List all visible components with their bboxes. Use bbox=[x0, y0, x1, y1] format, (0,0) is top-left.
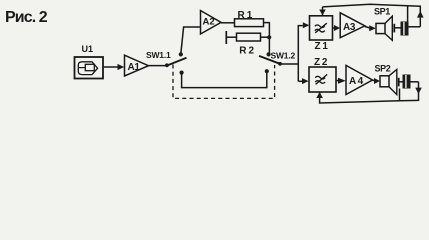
bottom feedback bus bbox=[320, 93, 419, 104]
drop from bus into Z1 top bbox=[322, 7, 324, 15]
wire element E2 right bbox=[411, 81, 419, 83]
filter Z2 box bbox=[309, 67, 336, 92]
svg-text:U1: U1 bbox=[82, 44, 94, 54]
top feedback bus bbox=[323, 4, 422, 7]
amplifier A4 bbox=[346, 65, 373, 94]
arrowhead into Z1 bbox=[303, 22, 310, 28]
arrowhead into A1 bbox=[118, 64, 125, 70]
wire A4 to SP2 bbox=[373, 79, 375, 81]
switch SW1.2 lever bbox=[259, 56, 281, 64]
wire U1 to A1 bbox=[103, 66, 118, 68]
drop element E2 bottom to bus bbox=[399, 89, 401, 101]
junction dot R2/R1 bbox=[267, 35, 271, 39]
wire R2 right to junction bbox=[261, 36, 270, 38]
wire R1 to corner bbox=[264, 23, 270, 53]
wire down right SP2 bbox=[418, 82, 420, 101]
arrowhead into A3 bbox=[334, 25, 340, 31]
pickup U1 box bbox=[75, 57, 104, 79]
wire SW1.1 up to A2 input bbox=[181, 27, 201, 53]
wire plate to element bbox=[395, 27, 401, 29]
arrowhead into A4 bbox=[338, 78, 346, 84]
wire A1 to SW1.1 bbox=[149, 65, 167, 67]
arrowhead up on feedback bbox=[417, 11, 424, 18]
switch SW1.2 bypass contact dot bbox=[265, 69, 269, 73]
pickup U1 needle line bbox=[79, 67, 85, 69]
svg-text:A2: A2 bbox=[203, 16, 215, 27]
pickup U1 inner rect bbox=[85, 64, 94, 70]
filter Z1 box bbox=[310, 16, 333, 40]
speaker SP1 bbox=[376, 23, 385, 33]
arrowhead into SP2 bbox=[374, 78, 380, 84]
drop from bus to element top bbox=[407, 6, 409, 22]
wire element right bbox=[409, 26, 421, 28]
resistor R1 bbox=[235, 19, 264, 27]
wire into Z2 bbox=[298, 80, 302, 82]
svg-text:Рис. 2: Рис. 2 bbox=[5, 9, 48, 26]
wire bypass U bbox=[182, 73, 267, 88]
wire split vertical bbox=[298, 26, 303, 82]
listener element E2 bbox=[403, 75, 411, 89]
wire Z1 to A3 bbox=[333, 27, 335, 29]
svg-text:A3: A3 bbox=[343, 22, 356, 33]
svg-text:SP1: SP1 bbox=[374, 7, 390, 17]
listener element E1 bbox=[401, 22, 409, 36]
wire A3 to SP1 bbox=[365, 27, 370, 29]
svg-text:R 2: R 2 bbox=[239, 45, 254, 56]
switch SW1.1 contact dot bbox=[179, 52, 183, 56]
switch SW1.1 bypass contact dot bbox=[180, 71, 184, 75]
wire SW1.2 output bbox=[280, 63, 298, 65]
amplifier A2 bbox=[201, 11, 222, 35]
resistor R2 bbox=[237, 33, 261, 41]
switch SW1.2 contact dot bbox=[267, 52, 271, 56]
svg-text:SP2: SP2 bbox=[375, 64, 391, 74]
plate at SP2 output bbox=[398, 78, 400, 87]
wire plate to element SP2 bbox=[399, 81, 402, 83]
svg-text:Z 1: Z 1 bbox=[315, 41, 329, 52]
svg-text:SW1.2: SW1.2 bbox=[271, 51, 296, 61]
speaker SP2 bbox=[380, 76, 389, 87]
wire Z2 to A4 bbox=[336, 80, 339, 82]
filter Z2 symbol bbox=[315, 74, 327, 84]
wire A2 to R1 bbox=[221, 22, 235, 24]
plate at SP1 output bbox=[393, 24, 395, 33]
wire up right with arrow bbox=[419, 7, 421, 27]
pickup U1 inner symbol bbox=[78, 62, 97, 75]
filter Z1 symbol bbox=[315, 23, 327, 33]
svg-text:A1: A1 bbox=[128, 62, 141, 73]
terminal bar at R2 left bbox=[225, 31, 227, 44]
arrowhead into Z2 bbox=[302, 78, 309, 84]
arrowhead down on feedback 2 bbox=[415, 88, 422, 94]
arrowhead up into Z2 bottom bbox=[316, 92, 323, 98]
wire R2 left terminal bbox=[227, 36, 237, 38]
arrowhead into SP1 bbox=[369, 25, 376, 31]
mechanical link dashed bbox=[173, 65, 275, 99]
arrowhead down into Z1 bbox=[319, 10, 326, 16]
svg-text:SW1.1: SW1.1 bbox=[146, 50, 171, 60]
switch SW1.1 lever bbox=[167, 58, 187, 66]
svg-text:A 4: A 4 bbox=[349, 76, 364, 87]
amplifier A1 bbox=[125, 55, 149, 76]
amplifier A3 bbox=[340, 13, 365, 38]
